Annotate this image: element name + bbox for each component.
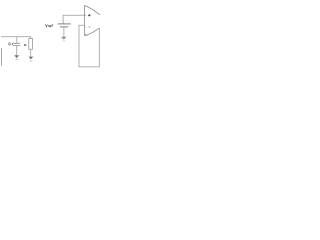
wire left edge stub (cropped component) xyxy=(1,48,3,66)
op-amp U1 triangle (clipped at right edge) xyxy=(85,6,100,36)
resistor R lead xyxy=(30,37,32,39)
capacitor C value label 0.1 xyxy=(9,43,11,46)
wire input bus top-left xyxy=(1,36,31,38)
op-amp - marking xyxy=(88,26,90,28)
ground under battery xyxy=(61,37,67,40)
Vref label xyxy=(45,24,47,27)
capacitor C lead xyxy=(16,37,18,43)
wire battery to ground xyxy=(63,27,65,37)
wire Vref to op-amp + input xyxy=(63,15,86,23)
ground under capacitor xyxy=(14,55,19,58)
capacitor C plates xyxy=(13,43,20,45)
wire feedback loop from - input down and around to output side xyxy=(79,25,99,67)
resistor R body xyxy=(29,39,33,50)
wire capacitor to ground xyxy=(16,46,18,56)
wire resistor to ground xyxy=(30,49,32,56)
op-amp bottom-left corner blob xyxy=(85,34,87,36)
ground under resistor xyxy=(29,57,34,60)
battery Vref source plates xyxy=(58,23,71,25)
op-amp + marking xyxy=(88,14,90,16)
op-amp - input lead stub xyxy=(85,26,87,28)
resistor R value label xyxy=(24,44,26,46)
